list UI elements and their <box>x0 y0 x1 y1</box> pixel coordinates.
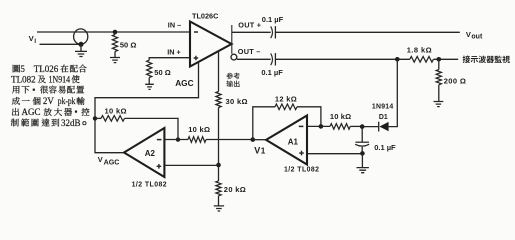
wire: U1 output vertical bar <box>231 25 233 54</box>
A2 minus sign <box>157 139 162 141</box>
ground below 50 ohm <box>114 52 116 58</box>
wire: A2 minus lead <box>164 139 188 141</box>
wire: A1 minus lead <box>307 125 330 127</box>
A1 plus sign <box>299 151 304 156</box>
svg-text:1N914: 1N914 <box>372 104 394 111</box>
svg-text:0.1 µF: 0.1 µF <box>374 143 396 152</box>
resistor 50 Ohm input termination <box>114 32 116 35</box>
node: A2 feedback tee <box>93 116 97 120</box>
svg-text:0.1 µF: 0.1 µF <box>261 68 283 77</box>
svg-text:0.1 µF: 0.1 µF <box>262 15 284 24</box>
resistor 10k A1 input <box>330 124 350 130</box>
wire: IN+ lead <box>149 58 190 61</box>
U1 inverting output bubble <box>231 54 237 60</box>
ground below 200 ohm <box>438 85 440 102</box>
A2 plus sign <box>157 164 162 169</box>
svg-text:1/2 TL082: 1/2 TL082 <box>284 166 319 173</box>
svg-text:30 kΩ: 30 kΩ <box>226 97 248 106</box>
resistor 50 Ohm IN+ bias <box>147 60 152 77</box>
U1 minus sign <box>194 31 198 33</box>
svg-text:2V: 2V <box>43 96 55 106</box>
capacitor C1 0.1uF OUT+ coupling <box>271 26 273 38</box>
svg-text:A2: A2 <box>145 149 156 158</box>
svg-text:32dB: 32dB <box>61 118 81 128</box>
node: A2 minus input junction <box>176 137 180 141</box>
wire: detector node to diode <box>362 126 379 128</box>
node: 50 ohm tap on top rail <box>113 30 118 35</box>
A1 minus sign <box>299 125 304 127</box>
wire: reference output vertical <box>218 51 220 165</box>
svg-text:V: V <box>98 155 103 164</box>
node: cap bottom junction <box>361 147 363 154</box>
svg-text:IN –: IN – <box>168 20 181 29</box>
resistor 1.8k <box>410 57 434 63</box>
svg-text:50 Ω: 50 Ω <box>154 68 170 77</box>
svg-text:50 Ω: 50 Ω <box>120 40 136 49</box>
wire: A1 plus lead <box>307 153 362 155</box>
svg-text:OUT +: OUT + <box>238 20 261 29</box>
wire: to node V1 <box>206 139 253 141</box>
label: connect-scope note <box>463 56 510 64</box>
resistor 10k A2 feedback <box>95 117 101 119</box>
svg-text:5: 5 <box>20 64 25 74</box>
ground below IN+ 50 ohm <box>148 78 150 85</box>
op-amp A2 half TL082 <box>124 128 164 177</box>
wire: AGC pin routed to A2 output <box>95 62 199 153</box>
node: A1 minus input junction <box>319 124 324 129</box>
svg-text:TL082: TL082 <box>11 74 35 84</box>
wire: diode anode up to OUT- node <box>389 59 398 126</box>
wire: VI top rail to IN- <box>37 31 190 33</box>
capacitor C2 0.1uF OUT- coupling <box>271 53 273 65</box>
caption paragraph figure 5 <box>11 65 90 127</box>
svg-text:AGC: AGC <box>104 159 120 167</box>
U1 plus sign <box>194 56 199 61</box>
wire: OUT- rail <box>237 58 458 60</box>
capacitor C3 0.1uF detector filter <box>361 127 363 142</box>
svg-text:20 kΩ: 20 kΩ <box>224 185 246 194</box>
svg-text:D1: D1 <box>379 114 388 121</box>
svg-text:pk-pk: pk-pk <box>58 96 76 106</box>
label: reference output note <box>226 73 239 87</box>
svg-text:12 kΩ: 12 kΩ <box>275 95 297 104</box>
svg-text:OUT –: OUT – <box>238 47 261 56</box>
op-amp U1 TL026C <box>190 22 232 67</box>
resistor 30k <box>216 92 221 108</box>
svg-text:200 Ω: 200 Ω <box>444 77 467 86</box>
node: A2 plus input junction <box>216 163 221 168</box>
wire: VI bottom stub <box>40 43 82 45</box>
svg-text:10 kΩ: 10 kΩ <box>188 125 210 134</box>
svg-text:out: out <box>471 33 483 40</box>
svg-text:AGC: AGC <box>175 78 193 88</box>
svg-text:V: V <box>254 146 260 156</box>
svg-text:1N914: 1N914 <box>49 74 71 84</box>
ground below source <box>80 44 82 51</box>
svg-text:10 kΩ: 10 kΩ <box>330 112 351 121</box>
svg-text:TL026: TL026 <box>34 64 59 74</box>
svg-text:A1: A1 <box>288 138 299 147</box>
node: scope tap <box>437 57 442 62</box>
wire: A2 plus input <box>164 164 218 166</box>
ground below 20k <box>218 196 220 206</box>
svg-text:1: 1 <box>261 147 266 156</box>
svg-text:V: V <box>466 30 471 39</box>
svg-text:10 kΩ: 10 kΩ <box>105 106 127 115</box>
wire: V1 to A1 output <box>252 139 266 141</box>
wire: 10k to detector node <box>350 125 362 127</box>
op-amp A1 half TL082 <box>266 116 307 165</box>
source generator circle <box>74 29 88 44</box>
svg-text:TL026C: TL026C <box>192 11 219 20</box>
node: source bottom junction <box>79 42 84 47</box>
resistor 200 Ohm <box>438 59 440 69</box>
node: detector junction <box>360 124 365 129</box>
node V1 <box>251 137 256 142</box>
resistor 12k A1 feedback <box>253 107 275 140</box>
svg-text:AGC: AGC <box>22 107 41 117</box>
node: OUT- to diode branch <box>395 57 400 62</box>
diode D1 1N914 <box>378 122 380 132</box>
wire: OUT+ rail to Vout <box>232 31 460 33</box>
svg-text:1.8 kΩ: 1.8 kΩ <box>407 46 432 55</box>
resistor 20k <box>218 165 220 181</box>
ground below detector cap <box>361 153 363 167</box>
svg-text:IN +: IN + <box>167 47 181 56</box>
resistor 10k V1 to A2 <box>188 137 206 143</box>
svg-text:1/2 TL082: 1/2 TL082 <box>132 182 167 189</box>
